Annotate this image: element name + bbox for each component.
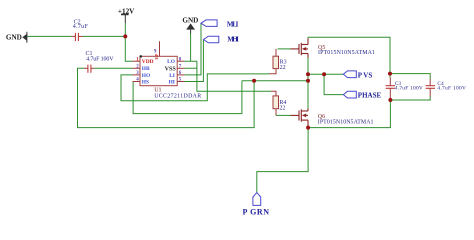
svg-text:VSS: VSS	[165, 67, 177, 73]
svg-text:HO: HO	[142, 73, 150, 79]
svg-text:VDD: VDD	[142, 59, 154, 65]
svg-text:4.7uF 100V: 4.7uF 100V	[86, 57, 114, 63]
svg-text:MHI: MHI	[227, 36, 239, 44]
svg-text:4.7uF: 4.7uF	[73, 24, 89, 30]
svg-text:9: 9	[154, 49, 157, 54]
svg-text:M LI: M LI	[227, 20, 239, 28]
svg-text:EP: EP	[154, 54, 159, 60]
svg-text:+12V: +12V	[118, 7, 135, 15]
svg-text:HS: HS	[142, 80, 149, 86]
svg-text:IPT015N10N5ATMA1: IPT015N10N5ATMA1	[318, 50, 375, 56]
svg-text:P VS: P VS	[358, 71, 373, 79]
svg-text:UCC27211DDAR: UCC27211DDAR	[154, 93, 201, 99]
svg-text:IPT015N10N5ATMA1: IPT015N10N5ATMA1	[318, 120, 374, 126]
svg-text:GND: GND	[6, 33, 22, 41]
svg-text:PHASE: PHASE	[358, 92, 382, 100]
svg-text:HI: HI	[169, 80, 175, 86]
svg-text:4.7uF 100V: 4.7uF 100V	[437, 85, 466, 91]
svg-text:LO: LO	[167, 59, 175, 65]
svg-text:22: 22	[280, 65, 286, 71]
svg-text:GND: GND	[182, 16, 198, 24]
svg-text:LI: LI	[169, 73, 175, 79]
svg-text:4.7uF 100V: 4.7uF 100V	[395, 85, 423, 91]
svg-text:22: 22	[279, 105, 285, 111]
svg-text:P GRN: P GRN	[243, 208, 270, 217]
svg-text:HB: HB	[142, 66, 150, 72]
